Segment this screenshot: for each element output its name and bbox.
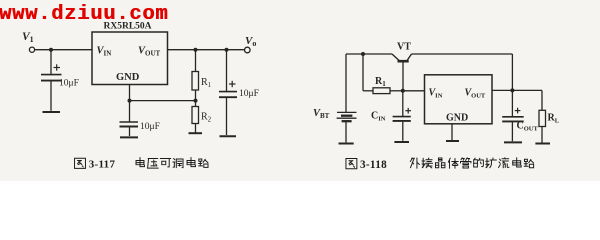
- capacitor C-out 10uF (output): [219, 81, 237, 137]
- junction: VOUT / collector / C-OUT node: [510, 88, 514, 92]
- rail end bar (C-IN): [394, 141, 409, 143]
- svg-text:R1: R1: [375, 76, 386, 88]
- svg-text:COUT: COUT: [517, 121, 539, 133]
- resistor RL: [539, 110, 546, 126]
- capacitor C-IN: [393, 91, 411, 141]
- capacitor C-in 10uF (input): [41, 64, 62, 112]
- svg-text:R1: R1: [201, 77, 212, 89]
- wire: R1 right lead to base node: [390, 90, 403, 92]
- junction: output cap node: [225, 48, 229, 52]
- junction: base / C-in / VIN node: [401, 89, 405, 93]
- transistor VT (pass transistor): [392, 54, 412, 91]
- watermark www.dziuu.com: [0, 5, 168, 26]
- svg-text:V1: V1: [22, 31, 34, 44]
- wire: IC GND lead down: [129, 85, 131, 101]
- battery VBT: [337, 112, 357, 142]
- svg-text:GND: GND: [116, 72, 140, 83]
- junction: GND node: [128, 99, 132, 103]
- svg-text:VOUT: VOUT: [465, 88, 486, 100]
- wire: GND node horizontal to R1/R2 junction: [130, 100, 196, 102]
- svg-text:RX5RL50A: RX5RL50A: [103, 22, 151, 32]
- junction: R1 top node: [194, 48, 198, 52]
- resistor R2: [192, 107, 199, 124]
- svg-text:10μF: 10μF: [59, 79, 79, 89]
- input terminal circle V1: [29, 47, 34, 52]
- svg-text:VIN: VIN: [429, 88, 443, 100]
- rail end bar (below R2): [189, 132, 203, 134]
- wire: node to IC VIN: [403, 90, 425, 92]
- svg-text:VBT: VBT: [313, 108, 330, 120]
- svg-text:GND: GND: [446, 113, 468, 124]
- resistor R1 (right circuit, base bias): [373, 88, 390, 94]
- IC U2 box (right circuit): [425, 75, 493, 124]
- capacitor C-gnd 10uF (on GND pin): [120, 101, 139, 138]
- wire: input node down to C-in: [50, 50, 52, 74]
- svg-text:RL: RL: [548, 113, 560, 125]
- svg-text:10μF: 10μF: [140, 122, 160, 132]
- rail end bar (C-OUT): [504, 141, 522, 143]
- rail end bar (battery): [339, 143, 354, 145]
- svg-text:VT: VT: [397, 42, 411, 53]
- IC U1 RX5RL50A box: [92, 32, 168, 85]
- junction: input node: [49, 48, 53, 52]
- wire: top rail battery+ to VT emitter: [346, 53, 392, 55]
- junction: R1 branch on top rail: [361, 52, 365, 56]
- caption: figure 3-118: [346, 159, 357, 169]
- svg-text:VIN: VIN: [97, 46, 112, 58]
- resistor R1: [192, 72, 199, 91]
- wire: IC GND stub: [451, 124, 453, 140]
- caption: figure 3-117: [75, 158, 86, 168]
- svg-text:R2: R2: [201, 112, 212, 124]
- wire: R2 bottom lead: [195, 124, 197, 133]
- wire: VT collector to output corner: [412, 53, 513, 55]
- wire: collector drop to VOUT rail: [511, 54, 513, 90]
- wire: R1 top lead: [195, 50, 197, 72]
- rail end bar (IC GND): [446, 140, 459, 142]
- svg-text:Vo: Vo: [245, 35, 256, 48]
- wire: rail junction down to R1 row: [362, 54, 364, 91]
- output terminal circle Vo: [245, 47, 251, 53]
- wire: input terminal to IC VIN: [35, 49, 92, 51]
- wire: R1 to R2: [195, 90, 197, 107]
- capacitor C-OUT: [502, 90, 524, 141]
- wire: battery top lead: [345, 54, 347, 112]
- svg-text:10μF: 10μF: [239, 89, 259, 99]
- wire: to R1 left lead: [363, 90, 373, 92]
- wire: IC VOUT to RL corner: [492, 89, 542, 91]
- wire: RL bottom lead: [541, 127, 543, 143]
- wire: output cap top lead: [226, 50, 228, 91]
- svg-text:CIN: CIN: [371, 111, 386, 123]
- svg-text:3-118: 3-118: [360, 159, 387, 171]
- svg-text:3-117: 3-117: [89, 159, 116, 171]
- rail end bar (RL): [535, 143, 550, 145]
- wire: RL top lead: [541, 90, 543, 110]
- svg-text:VOUT: VOUT: [138, 46, 161, 58]
- junction: R1/R2 midpoint (GND sense node): [194, 99, 198, 103]
- wire: IC VOUT to output terminal: [168, 49, 245, 51]
